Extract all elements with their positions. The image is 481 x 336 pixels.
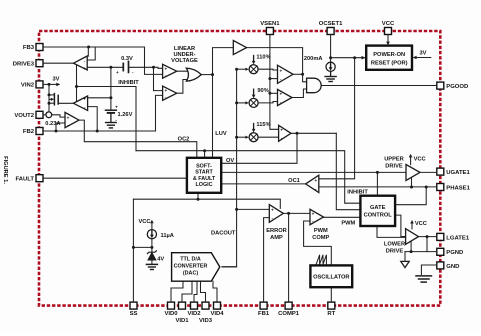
svg-text:SS: SS xyxy=(130,311,138,317)
svg-text:OC2: OC2 xyxy=(178,136,190,142)
svg-text:FB1: FB1 xyxy=(258,311,270,317)
current sense arrow dot 0.23A xyxy=(46,112,48,114)
svg-text:FB3: FB3 xyxy=(23,45,35,51)
wire soft-start tap into box top xyxy=(204,151,206,158)
wire gate control to lower drive input xyxy=(395,215,406,236)
junction phase upper drive xyxy=(410,186,413,189)
junction DACOUT error amp xyxy=(235,208,238,211)
svg-text:LUV: LUV xyxy=(215,131,227,137)
comparator 115pct OV fault xyxy=(279,125,291,141)
wire FAULT to soft-start box xyxy=(43,177,187,179)
svg-text:(DAC): (DAC) xyxy=(183,271,198,277)
pin PGOOD xyxy=(437,82,444,89)
svg-text:DACOUT: DACOUT xyxy=(211,230,236,236)
wire tap down into gate control top xyxy=(376,172,378,194)
svg-text:PGND: PGND xyxy=(446,250,463,256)
wire buffer output down to PGOOD AND gate xyxy=(247,48,307,82)
comparator LUV upper xyxy=(163,64,177,78)
wire comp2 out to OR gate xyxy=(177,80,189,94)
block OSCILLATOR xyxy=(310,265,352,287)
wire GND pin to ground xyxy=(421,265,436,275)
junction OCSET pin node xyxy=(329,56,332,59)
wire LGATE node down to PGND xyxy=(426,237,428,252)
svg-text:OC1: OC1 xyxy=(288,178,300,184)
wire VSEN tap to 110 comp minus xyxy=(270,78,278,80)
junction 0.3V left xyxy=(109,66,112,69)
comparator 110pct overvoltage xyxy=(278,65,294,83)
junction comp 110 out on buffer line xyxy=(301,73,304,76)
pin VCC xyxy=(385,28,392,35)
wire INHIBIT vertical between amp1 and amp2 xyxy=(76,65,78,102)
svg-text:VID3: VID3 xyxy=(199,318,213,324)
wire VSEN1 rail xyxy=(270,35,279,130)
wire 90 comp out to AND gate xyxy=(292,89,307,98)
wire lower drive return to PGND line xyxy=(410,242,412,252)
wire OCSET node to POR arrow xyxy=(331,57,411,59)
pin RT xyxy=(328,302,335,309)
comparator 90pct undervoltage xyxy=(278,89,293,105)
svg-text:START: START xyxy=(195,170,213,176)
wire mosfet bulk arrow stem xyxy=(49,98,51,100)
wire PWM comp out to gate control xyxy=(324,216,361,218)
svg-text:PWM: PWM xyxy=(314,228,328,234)
junction 1.26V tap xyxy=(109,96,112,99)
svg-text:CONVERTER: CONVERTER xyxy=(174,264,208,270)
junction COMP1 node xyxy=(287,212,290,215)
junction FB3 tap xyxy=(87,46,90,49)
comparator amp3 0.23A current limit xyxy=(65,112,79,127)
wire VSEN tap to 90 comp plus xyxy=(270,92,278,94)
zener 4V xyxy=(147,251,156,254)
junction VSEN 110 tap xyxy=(268,77,271,80)
wire RT to oscillator xyxy=(330,288,332,302)
wire upper drive VCC stem xyxy=(410,156,412,165)
svg-text:3V: 3V xyxy=(53,76,60,82)
arrowhead 110pct into mult xyxy=(245,68,248,71)
svg-text:+: + xyxy=(83,66,86,71)
svg-text:+: + xyxy=(116,70,119,75)
svg-text:+: + xyxy=(279,68,282,73)
wire OC2 from amp3 to box top xyxy=(79,120,197,157)
wire comp1 out to OR gate xyxy=(177,69,188,71)
junction SS box stub xyxy=(197,198,200,201)
svg-text:115%: 115% xyxy=(256,122,270,128)
svg-text:FIGURE 1.: FIGURE 1. xyxy=(2,156,8,184)
svg-text:0.3V: 0.3V xyxy=(121,56,133,62)
ground arrow open triangle xyxy=(401,261,409,267)
svg-text:+: + xyxy=(280,127,283,132)
multiplier 90pct xyxy=(249,98,258,107)
wire DAC output to rail xyxy=(222,266,237,268)
pin PHASE1 xyxy=(437,184,444,191)
arrowhead 90pct down xyxy=(252,95,256,99)
pin VID1 xyxy=(179,302,186,309)
wire PWM comp minus to oscillator ramp xyxy=(304,221,332,265)
wire 3V into POR xyxy=(415,57,431,59)
svg-text:VID0: VID0 xyxy=(164,311,178,317)
op-amp error amp xyxy=(269,205,283,223)
junction DAC 110 tap xyxy=(235,68,238,71)
arrowhead 11uA VCC up xyxy=(150,220,154,224)
pin LGATE1 xyxy=(437,233,444,240)
arrowhead 115pct into mult xyxy=(245,136,248,139)
pin UGATE1 xyxy=(437,168,444,175)
block SOFT-START and FAULT LOGIC xyxy=(187,158,221,193)
arrowhead VIN2 3V xyxy=(56,83,60,87)
comparator PWM comp xyxy=(310,209,324,224)
junction FB2 amp3 xyxy=(55,130,58,133)
ground right GND xyxy=(416,275,432,277)
wire mosfet source stub xyxy=(49,102,54,104)
svg-text:INHIBIT: INHIBIT xyxy=(118,80,139,86)
wire error amp out to PWM comp plus xyxy=(283,212,310,214)
buffer DAC reference xyxy=(233,41,246,55)
svg-text:+: + xyxy=(312,212,315,217)
svg-text:OCSET1: OCSET1 xyxy=(319,21,343,27)
arrowhead into POR left xyxy=(362,56,366,60)
battery 0.3V xyxy=(122,63,124,70)
current source 200mA xyxy=(326,62,335,71)
stem 110pct xyxy=(253,56,255,63)
arrowhead lower drive VCC up xyxy=(410,220,414,224)
wire VCC stem 11uA xyxy=(151,224,153,230)
battery reference 1.26V xyxy=(106,109,117,111)
wire SS riser xyxy=(132,199,134,302)
svg-text:VCC: VCC xyxy=(415,221,427,227)
svg-text:POWER-ON: POWER-ON xyxy=(373,52,405,58)
and-gate PGOOD xyxy=(307,78,322,93)
arrowhead 11uA xyxy=(150,235,154,239)
svg-text:INHIBIT: INHIBIT xyxy=(347,190,368,196)
op-amp amp2 VOUT2 regulator xyxy=(73,96,87,110)
wire 110pct mult out to comp plus xyxy=(258,68,277,71)
svg-text:GATE: GATE xyxy=(370,205,386,211)
svg-text:3V: 3V xyxy=(420,51,427,57)
wire INHIBIT stub xyxy=(77,87,137,151)
multiplier 115pct xyxy=(249,133,258,142)
wire box bottom stub xyxy=(197,193,199,199)
svg-text:SOFT-: SOFT- xyxy=(196,163,212,169)
svg-text:200mA: 200mA xyxy=(304,56,323,62)
ground below 200mA xyxy=(330,71,332,76)
oscillator sawtooth xyxy=(316,255,326,264)
wire PGND line xyxy=(405,251,437,253)
wire FB3 to comparator xyxy=(43,47,163,74)
wire DACOUT to error amp plus xyxy=(237,208,270,210)
current sense 0.23A xyxy=(46,112,52,118)
buffer upper drive xyxy=(406,165,420,181)
multiplier 110pct xyxy=(249,65,258,74)
arrowhead mosfet bulk xyxy=(51,98,54,101)
junction DAC 115 tap xyxy=(235,136,238,139)
svg-text:VOLTAGE: VOLTAGE xyxy=(171,58,198,64)
svg-text:0.23A: 0.23A xyxy=(45,121,60,127)
text DAC xyxy=(174,257,208,277)
pin PGND xyxy=(437,248,444,255)
svg-text:LINEAR: LINEAR xyxy=(174,46,195,52)
wire DACOUT rail xyxy=(222,69,237,267)
svg-text:AMP: AMP xyxy=(270,235,283,241)
pin FB3 xyxy=(36,44,43,51)
wire lower drive out to LGATE1 xyxy=(419,236,437,238)
wire COMP1 riser xyxy=(288,213,290,302)
svg-text:4V: 4V xyxy=(157,257,164,263)
arrowhead 110pct down xyxy=(252,61,256,65)
wire OC1 minus to PHASE1 xyxy=(319,186,437,188)
NET LABELS xyxy=(45,51,427,263)
svg-text:VCC: VCC xyxy=(382,21,395,27)
pin VIN2 xyxy=(36,81,43,88)
PINS xyxy=(36,28,444,310)
wire DAC to 90pct multiplier arrow stem xyxy=(237,102,247,104)
wire 0.3V node down to 1.26V reference xyxy=(110,67,112,109)
wire gate control bottom to lower drive xyxy=(377,227,406,238)
current source 11uA xyxy=(147,230,156,239)
svg-text:1.26V: 1.26V xyxy=(118,112,133,118)
junction DAC 90 tap xyxy=(235,101,238,104)
junction mosfet drain xyxy=(48,93,51,96)
svg-text:LOGIC: LOGIC xyxy=(195,182,212,188)
svg-text:& FAULT: & FAULT xyxy=(193,176,216,182)
IC boundary red dashed border xyxy=(39,31,440,306)
junction mosfet source xyxy=(48,102,51,105)
wire mosfet drain stub xyxy=(49,94,54,96)
wire FB3 tap to amp1 top input xyxy=(87,47,95,60)
svg-text:VIN2: VIN2 xyxy=(21,83,35,89)
svg-text:DRIVE: DRIVE xyxy=(386,248,404,254)
svg-text:VID2: VID2 xyxy=(187,311,201,317)
svg-text:CONTROL: CONTROL xyxy=(364,213,393,219)
pin OCSET1 xyxy=(327,28,334,35)
comparator LUV lower xyxy=(163,86,177,100)
pin FB2 xyxy=(36,128,43,135)
svg-text:110%: 110% xyxy=(256,54,270,60)
wire OCSET node down to OC1 plus xyxy=(319,58,355,179)
wire LUV rail up to buffer input xyxy=(213,48,234,75)
svg-text:OSCILLATOR: OSCILLATOR xyxy=(313,275,349,281)
wire DAC to 110pct multiplier arrow stem xyxy=(237,68,247,70)
wire VID1 xyxy=(182,281,192,302)
wire 0.3V node to comp2 plus xyxy=(154,67,163,90)
op-amp linear amp1 DRIVE3 xyxy=(74,56,88,70)
svg-text:RT: RT xyxy=(327,311,335,317)
svg-text:COMP1: COMP1 xyxy=(278,311,300,317)
junction FB2 amp2 xyxy=(96,130,99,133)
wire lower drive VCC stem xyxy=(411,222,413,229)
svg-text:+: + xyxy=(271,207,274,212)
svg-text:RESET (POR): RESET (POR) xyxy=(371,60,408,66)
svg-text:COMP: COMP xyxy=(312,235,329,241)
ground below zener xyxy=(146,263,157,265)
junction SS 11uA tap xyxy=(132,246,135,249)
block GATE CONTROL xyxy=(360,196,395,226)
svg-text:DRIVE: DRIVE xyxy=(385,163,403,169)
pin VID0 xyxy=(168,302,175,309)
svg-text:+: + xyxy=(164,66,167,71)
wire FB2 branch to amp2 minus xyxy=(88,107,98,131)
svg-text:FAULT: FAULT xyxy=(15,176,34,182)
arrowhead upper drive VCC up xyxy=(409,154,413,158)
svg-text:VSEN1: VSEN1 xyxy=(260,21,280,27)
stem 115pct xyxy=(253,124,255,131)
text soft start xyxy=(193,163,216,188)
wire VIN2 node xyxy=(43,83,49,85)
svg-text:UNDER-: UNDER- xyxy=(173,52,195,58)
wire FB2 branch to amp3 minus xyxy=(56,123,65,131)
svg-text:LOWER: LOWER xyxy=(384,241,405,247)
wire VID3 xyxy=(201,281,206,302)
junction VSEN 90 tap xyxy=(268,92,271,95)
pin GND xyxy=(437,262,444,269)
wire FB3 stub to amp1 top corner xyxy=(87,47,89,56)
wire VIN2 rail down to 0.23A node xyxy=(48,84,50,112)
svg-text:VCC: VCC xyxy=(139,219,151,225)
arrowhead 90pct into mult xyxy=(245,101,248,104)
svg-text:DRIVE3: DRIVE3 xyxy=(13,61,35,67)
arrowhead 115pct down xyxy=(252,129,256,133)
block TTL D/A CONVERTER DAC xyxy=(172,253,220,282)
wire DRIVE3 to amp1 output xyxy=(43,62,74,64)
wire VID4 xyxy=(213,281,217,302)
buffer lower drive xyxy=(406,229,419,245)
pin VID3 xyxy=(202,302,209,309)
wire 115pct mult out to comp minus xyxy=(258,136,279,138)
pin COMP1 xyxy=(285,302,292,309)
arrowhead 3V into POR right xyxy=(413,56,417,60)
pin FAULT xyxy=(36,175,43,182)
stem 90pct xyxy=(253,89,255,96)
junction gate control top tap xyxy=(376,171,379,174)
arrowhead VCC into POR top xyxy=(386,42,390,46)
svg-text:GND: GND xyxy=(446,264,459,270)
svg-text:PWM: PWM xyxy=(341,220,355,226)
wire amp1 minus to 0.3V battery to comp1 plus xyxy=(87,66,122,68)
wire FB2 trunk xyxy=(43,95,163,131)
svg-text:ERROR: ERROR xyxy=(266,228,287,234)
pin SS xyxy=(130,302,137,309)
block POWER-ON RESET xyxy=(366,46,412,70)
svg-text:VOUT2: VOUT2 xyxy=(14,113,34,119)
junction VIN2 xyxy=(48,83,51,86)
wire mosfet gate to amp2 output xyxy=(58,102,73,104)
svg-text:+: + xyxy=(314,178,317,183)
svg-text:TTL D/A: TTL D/A xyxy=(180,257,201,263)
wire SS tap to 11uA node xyxy=(133,246,152,248)
junction inhibit amp tap xyxy=(75,85,78,88)
wire PGND line to ground arrow xyxy=(404,252,406,261)
junction inhibit box tap xyxy=(203,149,206,152)
svg-text:11µA: 11µA xyxy=(161,233,174,239)
wire 1.26V tap to amp2 plus xyxy=(88,97,111,99)
wire VOUT2 to amp3 plus xyxy=(43,114,46,116)
wire soft-start SS clamp trunk xyxy=(133,199,280,208)
pin VSEN1 xyxy=(266,28,273,35)
wire upper drive bottom to phase line xyxy=(411,178,413,188)
wire drive enable line to upper drive xyxy=(221,171,406,173)
svg-text:FB2: FB2 xyxy=(23,129,35,135)
junction LGATE node xyxy=(426,235,429,238)
svg-text:LGATE1: LGATE1 xyxy=(446,235,470,241)
wire INHIBIT trunk to gate control xyxy=(136,151,360,204)
wire error amp minus to FB1 xyxy=(264,218,270,303)
junction 115 output xyxy=(296,132,299,135)
wire 115 comp output node xyxy=(291,132,336,134)
junction OCSET node xyxy=(353,56,356,59)
wire 110 comp out to AND gate xyxy=(293,73,303,75)
wire 115 line down into gate control xyxy=(336,133,360,209)
pin FB1 xyxy=(260,302,267,309)
svg-text:UPPER: UPPER xyxy=(384,156,404,162)
svg-text:PGOOD: PGOOD xyxy=(446,84,468,90)
pin VID2 xyxy=(191,302,198,309)
wire VID2 xyxy=(194,281,197,302)
wire LUV rail xyxy=(212,75,214,158)
BLOCK TEXT xyxy=(171,46,407,281)
or-gate LUV xyxy=(186,68,201,81)
text linear undervoltage xyxy=(171,46,198,64)
transistor internal pass MOSFET xyxy=(53,94,55,105)
wire VIN2 3V arrow stem xyxy=(49,83,57,85)
junction lower drive return xyxy=(410,250,413,253)
pin VID4 xyxy=(214,302,221,309)
arrowhead 200mA xyxy=(329,67,333,71)
wire VCC arrow into POR xyxy=(387,35,389,44)
svg-text:OV: OV xyxy=(226,158,234,164)
svg-text:+: + xyxy=(164,88,167,93)
pin DRIVE3 xyxy=(36,60,43,67)
svg-text:90%: 90% xyxy=(257,88,268,94)
wire OC1 output to soft-start box xyxy=(221,183,305,185)
wire OV branch to soft-start box xyxy=(221,133,297,163)
svg-text:+: + xyxy=(279,91,282,96)
wire DAC to 115pct multiplier arrow stem xyxy=(237,136,247,138)
junction phase gate control return xyxy=(425,186,428,189)
junction 11uA zener node xyxy=(150,246,153,249)
wire gate control to upper drive phase return xyxy=(395,187,426,205)
svg-text:VID1: VID1 xyxy=(175,318,189,324)
junction 0.3V right xyxy=(152,66,155,69)
wire OCSET1 down to 200mA source xyxy=(330,35,332,63)
ground below 1.26V xyxy=(106,122,117,124)
wire zener to ground xyxy=(151,260,153,264)
svg-text:+: + xyxy=(67,116,70,121)
comparator OC1 overcurrent xyxy=(306,175,319,192)
wire AND gate to PGOOD xyxy=(321,85,437,87)
wire 90pct mult out to comp minus xyxy=(258,102,277,103)
wire upper drive out to UGATE1 xyxy=(420,171,437,174)
svg-text:VCC: VCC xyxy=(414,156,426,162)
svg-text:+: + xyxy=(115,105,118,110)
wire VID0 xyxy=(171,281,183,302)
svg-text:+: + xyxy=(83,97,86,102)
svg-text:PHASE1: PHASE1 xyxy=(446,185,470,191)
junction LUV node xyxy=(211,73,214,76)
svg-text:VID4: VID4 xyxy=(210,311,224,317)
BLOCKS xyxy=(172,46,412,288)
pin VOUT2 xyxy=(36,111,43,118)
wire LUV OR output node xyxy=(201,74,213,76)
wire 11uA source to zener xyxy=(151,239,153,253)
svg-text:UGATE1: UGATE1 xyxy=(446,170,470,176)
